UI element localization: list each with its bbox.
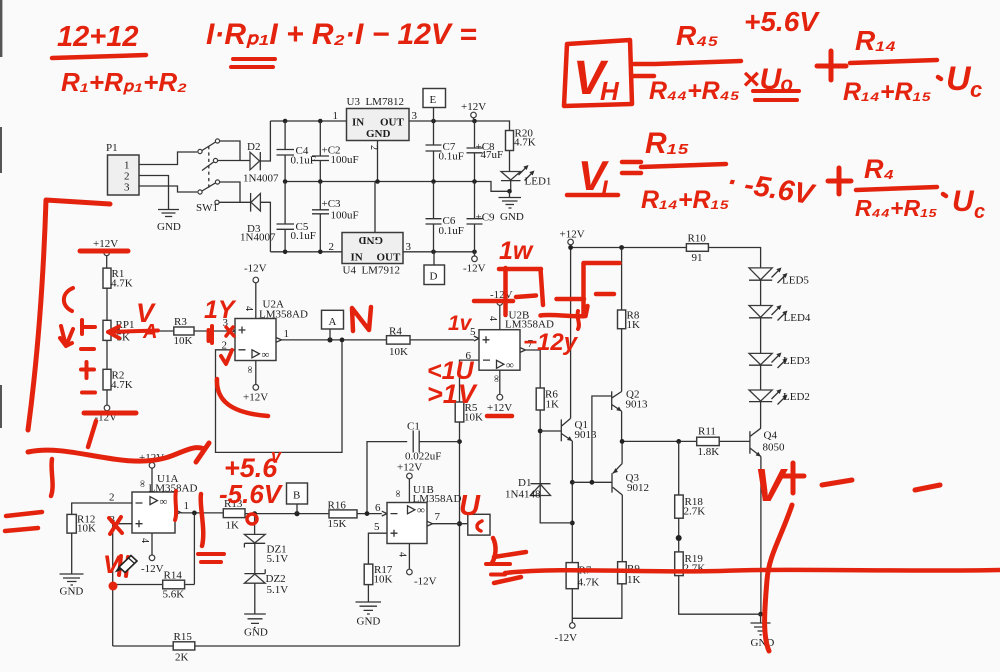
marks at U2A inputs (209, 326, 213, 343)
svg-text:4: 4 (243, 306, 254, 311)
BLACK SCHEMATIC (106, 89, 551, 285)
svg-text:U: U (946, 60, 972, 98)
svg-text:8050: 8050 (763, 442, 786, 454)
switch SW1 row C (198, 190, 202, 194)
resistor R11 (697, 437, 720, 445)
svg-text:15K: 15K (328, 518, 347, 530)
resistor R15 (173, 642, 195, 650)
svg-text:1N4148: 1N4148 (505, 489, 541, 501)
wire SW1 to D3 (219, 201, 250, 203)
svg-text:D1: D1 (518, 477, 531, 489)
wire -rect rail (bottom) (270, 251, 474, 253)
wire R5 to C1 node (459, 422, 461, 646)
svg-text:∞: ∞ (392, 490, 403, 497)
svg-text:+12V: +12V (560, 229, 585, 241)
svg-text:12+12: 12+12 (57, 21, 138, 53)
node A (322, 310, 344, 329)
svg-text:10K: 10K (174, 335, 193, 347)
transistor Q3 9012 (613, 441, 622, 473)
svg-text:R₁₄: R₁₄ (855, 25, 896, 56)
svg-text:10K: 10K (389, 346, 408, 358)
long horizontal red line (505, 570, 1000, 573)
wire Q2 base to Q3 base rail (592, 396, 612, 482)
node Q1 base junction (538, 429, 543, 434)
svg-text:Q4: Q4 (764, 430, 778, 442)
svg-text:10K: 10K (77, 523, 96, 535)
node Uc junction (457, 521, 462, 526)
svg-text:1K: 1K (627, 319, 641, 331)
capacitor C3 (312, 182, 329, 252)
svg-text:+12V: +12V (93, 238, 118, 250)
svg-text:-12V: -12V (463, 263, 486, 275)
wire Q3 collector to R9 (621, 495, 623, 562)
svg-text:U: U (952, 185, 975, 218)
ground (output stage) (751, 614, 771, 635)
svg-text:+C9: +C9 (476, 212, 496, 224)
node U1A feedback junction (192, 511, 197, 516)
resistor R7 (566, 563, 578, 589)
svg-text:D2: D2 (247, 141, 260, 153)
diode D3 (250, 193, 252, 212)
svg-text:6: 6 (375, 502, 381, 514)
svg-text:+C3: +C3 (322, 198, 342, 210)
dashes right of V+ (822, 480, 940, 490)
svg-text:OUT: OUT (377, 252, 402, 264)
svg-text:GND: GND (157, 221, 181, 233)
resistor R9 (618, 562, 627, 584)
wire Q3 base rail (572, 481, 612, 483)
node D (424, 265, 445, 285)
transistor Q1 9013 (540, 430, 561, 432)
ground (P1) (158, 210, 179, 217)
arc under U2A (217, 379, 268, 416)
svg-text:4.7K: 4.7K (514, 137, 536, 149)
svg-text:LED4: LED4 (784, 312, 811, 324)
svg-text:LED5: LED5 (782, 275, 809, 287)
svg-text:∞: ∞ (160, 496, 168, 508)
svg-text:5: 5 (374, 521, 380, 533)
pen cursor (116, 556, 137, 573)
LED5 (749, 268, 772, 280)
capacitor C7 (426, 121, 442, 182)
resistor R20 (506, 131, 514, 151)
svg-text:∞: ∞ (244, 366, 255, 373)
switch SW1 row A (198, 149, 202, 153)
capacitor C5 (277, 182, 295, 252)
mark under U2B +12V (487, 414, 512, 419)
note formula VH (564, 40, 632, 106)
svg-text:R15: R15 (174, 631, 193, 643)
svg-text:∞: ∞ (137, 480, 148, 487)
ground (LED1) (499, 191, 522, 208)
node dots top rail (283, 119, 288, 124)
wire U4 GND pin to mid rail (374, 182, 376, 233)
svg-text:R14: R14 (164, 570, 183, 582)
svg-text:R16: R16 (328, 500, 347, 512)
ground (R12) (60, 533, 84, 585)
svg-text:-5.6V: -5.6V (219, 479, 284, 509)
svg-text:R₄₄+R₄₅: R₄₄+R₄₅ (649, 77, 740, 105)
svg-text:47uF: 47uF (481, 149, 504, 161)
svg-text:0.1uF: 0.1uF (291, 230, 316, 242)
svg-text:H: H (600, 76, 620, 106)
svg-text:4: 4 (139, 538, 150, 543)
svg-text:10K: 10K (464, 412, 483, 424)
svg-text:V: V (754, 459, 788, 511)
connector P1 (108, 155, 140, 195)
wire U3 GND pin to mid rail (377, 141, 379, 182)
wire R16 to U1B pin6 (357, 513, 382, 515)
svg-text:LM358AD: LM358AD (149, 483, 198, 495)
svg-text:+12V: +12V (461, 101, 486, 113)
resistor R13 (223, 509, 245, 518)
transistor Q2 9013 (612, 329, 622, 398)
svg-text:OUT: OUT (380, 117, 405, 129)
svg-text:LED3: LED3 (783, 355, 810, 367)
resistor R18 (678, 441, 680, 495)
svg-text:SW1: SW1 (196, 202, 218, 214)
svg-text:3: 3 (124, 182, 130, 194)
wire R19 to GND node (679, 576, 761, 615)
svg-text:9013: 9013 (575, 429, 598, 441)
svg-text:7: 7 (435, 511, 441, 523)
svg-text:1w: 1w (499, 237, 534, 265)
svg-text:1K: 1K (546, 399, 560, 411)
zener DZ2 5.1V (254, 543, 256, 573)
svg-text:∞: ∞ (506, 360, 514, 372)
marks at U1A pin3 (109, 517, 122, 534)
svg-text:1: 1 (184, 500, 190, 512)
terminal -12V (supply) (474, 252, 476, 256)
svg-text:2: 2 (368, 145, 379, 150)
svg-text:D: D (430, 271, 438, 283)
switch SW1 pole (215, 200, 219, 204)
svg-text:10K: 10K (374, 574, 393, 586)
svg-text:1K: 1K (226, 520, 240, 532)
svg-text:>1V: >1V (427, 379, 478, 409)
resistor R4 (387, 336, 411, 344)
svg-text:C1: C1 (407, 421, 420, 433)
transistor Q4 8050 (749, 431, 751, 454)
note N mark right of node A (352, 307, 371, 331)
svg-text:R11: R11 (698, 426, 716, 438)
resistor R1 (106, 256, 108, 269)
resistor R16 (329, 510, 357, 518)
svg-text:1K: 1K (627, 574, 641, 586)
ground (R17) (356, 585, 382, 614)
svg-text:GND: GND (357, 616, 381, 628)
wire node B rail (245, 513, 329, 515)
resistor R5 (455, 402, 464, 422)
node C1/pin6 junction (365, 511, 370, 516)
svg-text:∞: ∞ (491, 375, 502, 382)
svg-text:+12V: +12V (397, 462, 422, 474)
wire Q1 emitter down (571, 441, 573, 563)
svg-text:R₁₄+R₁₅: R₁₄+R₁₅ (843, 78, 931, 106)
svg-text:9013: 9013 (626, 399, 649, 411)
svg-text:∞: ∞ (417, 505, 425, 517)
svg-text:1v: 1v (448, 312, 473, 335)
svg-text:-12V: -12V (141, 563, 164, 575)
wire U1A pin3 sense net (113, 524, 132, 585)
svg-text:U3 LM7812: U3 LM7812 (347, 96, 404, 108)
diode D1 1N4148 (531, 483, 551, 485)
resistor R6 (536, 388, 544, 410)
svg-text:LED1: LED1 (525, 176, 552, 188)
svg-text:2: 2 (109, 492, 115, 504)
ground (DZ2) (244, 583, 266, 627)
svg-text:R₁+Rₚ₁+R₂: R₁+Rₚ₁+R₂ (61, 67, 187, 97)
svg-text:U4 LM7912: U4 LM7912 (343, 265, 400, 277)
svg-text:2.7K: 2.7K (684, 506, 706, 518)
svg-text:1.8K: 1.8K (698, 446, 720, 458)
svg-text:5.1V: 5.1V (267, 553, 289, 565)
svg-text:+12V: +12V (487, 402, 512, 414)
wire R3 to U2A pin3 (194, 330, 230, 332)
wire U2B pin7 output to R6 (526, 350, 541, 388)
svg-text:IN: IN (352, 117, 364, 129)
svg-text:4.7K: 4.7K (111, 379, 133, 391)
switch SW1 row B (213, 158, 217, 162)
svg-text:+12V: +12V (243, 392, 268, 404)
wire U2A output to U2B pin5 (282, 339, 474, 341)
svg-text:91: 91 (692, 252, 703, 264)
squiggles at U1A output (175, 491, 176, 520)
resistor R17 (364, 564, 373, 585)
resistor R14 (163, 580, 185, 589)
svg-text:R₁₅: R₁₅ (645, 127, 689, 160)
svg-text:100uF: 100uF (331, 154, 359, 166)
wire U1B pin5 to R17 (368, 533, 387, 564)
left edge dark slivers (0, 0, 2, 57)
U2B V+ supply (+12V bottom) (499, 370, 501, 394)
red arrow at RP1 wiper (108, 327, 158, 339)
svg-text:v: v (271, 446, 282, 466)
red o at R13 output (247, 514, 257, 524)
resistor R19 (675, 552, 684, 576)
svg-text:0.1uF: 0.1uF (439, 151, 464, 163)
capacitor C9 (467, 182, 483, 252)
svg-text:4.7K: 4.7K (111, 278, 133, 290)
resistor R8 (621, 248, 623, 311)
wire P1 pin3 to switch row C (139, 186, 197, 192)
wire bottom rail to Uc node (195, 645, 460, 647)
svg-text:-12V: -12V (555, 632, 578, 644)
wire R9 bottom to -12V node (572, 584, 622, 619)
capacitor C1 (367, 431, 460, 514)
wire P1 pin2 to ground (139, 176, 169, 210)
svg-text:L: L (601, 176, 616, 203)
svg-text:+5.6V: +5.6V (744, 6, 820, 37)
svg-text:R₄₅: R₄₅ (676, 20, 719, 51)
node C1/R5 junction (457, 439, 462, 444)
resistor R10 (686, 244, 708, 252)
node Uc (468, 514, 490, 535)
svg-text:9012: 9012 (627, 482, 649, 494)
capacitor C8 (467, 121, 483, 182)
resistor R12 (67, 514, 76, 533)
svg-text:1N4007: 1N4007 (240, 232, 276, 244)
wire U1A output to R13 (181, 512, 224, 514)
svg-text:−12y: −12y (523, 329, 579, 356)
svg-text:R₁₄+R₁₅: R₁₄+R₁₅ (641, 186, 729, 214)
svg-text:IN: IN (351, 252, 363, 264)
switch SW1 dashed link (208, 146, 210, 190)
wire R6 to Q1 base node / D1 (539, 410, 541, 496)
long S stroke through GND (765, 505, 792, 651)
capacitor C2 (312, 121, 329, 182)
svg-text:GND: GND (500, 211, 524, 223)
svg-text:100uF: 100uF (331, 210, 359, 222)
wire P1 pin1 to switch row A (139, 152, 197, 165)
svg-text:LM358AD: LM358AD (413, 493, 462, 505)
svg-text:-12V: -12V (244, 263, 267, 275)
wire R14 feedback (113, 513, 195, 585)
svg-text:2K: 2K (175, 652, 189, 664)
node A junction (327, 337, 332, 342)
LED1 (501, 172, 521, 181)
node Q3 base junction (590, 480, 595, 485)
svg-text:GND: GND (359, 234, 384, 246)
left bracket Vt (28, 200, 110, 430)
svg-text:GND: GND (244, 627, 268, 639)
svg-text:R₄₄+R₁₅: R₄₄+R₁₅ (855, 195, 937, 221)
svg-text:R3: R3 (174, 316, 187, 328)
svg-text:4: 4 (397, 552, 408, 557)
capacitor C6 (426, 182, 442, 252)
wire RP1 to R2 (106, 340, 108, 369)
wire mid (ground) rail (285, 182, 509, 192)
svg-text:R₄: R₄ (864, 154, 894, 184)
op-amp U2A (235, 319, 276, 361)
LED3 (749, 353, 772, 364)
LED4 (749, 306, 772, 318)
svg-text:3: 3 (412, 110, 418, 122)
not-equal marks left of D1 (494, 552, 526, 583)
svg-text:R4: R4 (389, 326, 402, 338)
capacitor C4 (277, 121, 295, 182)
wire pin3 net down to bottom rail (113, 585, 174, 647)
svg-text:1: 1 (284, 328, 290, 340)
svg-text:1Y: 1Y (204, 296, 237, 324)
svg-text:LM358AD: LM358AD (259, 309, 308, 321)
svg-text:1N4007: 1N4007 (243, 173, 279, 185)
wire U2B pin6 to R5 (460, 360, 480, 402)
regulator U4 LM7912 (342, 233, 403, 264)
wire Q2 emitter to R11 node (621, 411, 623, 441)
svg-text:0.1uF: 0.1uF (439, 225, 464, 237)
wire R1 to RP1 (106, 288, 108, 320)
svg-text:c: c (970, 77, 982, 102)
node E (423, 89, 446, 108)
svg-text:5.1V: 5.1V (267, 584, 289, 596)
diode D2 (218, 160, 250, 162)
svg-text:E: E (430, 94, 437, 106)
svg-text:A: A (329, 316, 337, 328)
node R18/R19 (678, 518, 680, 552)
resistor R2 (103, 369, 111, 390)
svg-text:B: B (293, 490, 300, 502)
svg-text:GND: GND (366, 128, 391, 140)
wire +12V output rail (409, 121, 510, 131)
wire Q1 collector to +12V rail (570, 248, 572, 419)
svg-text:4: 4 (487, 316, 498, 321)
LED2 (749, 390, 772, 401)
U2A V+ supply (+12V bottom) (255, 361, 257, 385)
wire row C to D3 line (220, 182, 240, 202)
node B (287, 483, 308, 504)
svg-text:∞: ∞ (262, 349, 270, 361)
wire row A to D2 line (220, 141, 240, 161)
svg-text:c: c (974, 201, 985, 223)
wire U2A pin2 feedback loop (216, 340, 343, 453)
svg-text:LED2: LED2 (783, 391, 810, 403)
svg-text:I·Rₚ₁I + R₂·I − 12V =: I·Rₚ₁I + R₂·I − 12V = (206, 18, 477, 51)
potentiometer RP1 (103, 320, 111, 340)
svg-text:4.7K: 4.7K (578, 577, 600, 589)
resistor R3 (174, 327, 194, 335)
wire +rect rail (top) (270, 120, 346, 122)
wire R10 to LED chain (708, 248, 760, 268)
svg-text:-12V: -12V (414, 576, 437, 588)
svg-text:GND: GND (751, 637, 775, 649)
terminal -12V (R2 bottom) (106, 390, 108, 405)
svg-text:U: U (459, 490, 481, 522)
wire U1A pin2 to R12 (72, 503, 132, 514)
svg-text:GND: GND (60, 586, 84, 598)
zener DZ1 5.1V (254, 514, 256, 535)
wire Q4 emitter to GND (760, 457, 762, 615)
svg-text:5.6K: 5.6K (163, 589, 185, 601)
svg-text:R10: R10 (688, 233, 707, 245)
regulator U3 LM7812 (347, 109, 410, 141)
svg-text:1: 1 (333, 110, 339, 122)
wire U1B pin7 to node Uc (433, 523, 468, 525)
op-amp U2B (474, 336, 479, 341)
terminal -12V (R7 bottom) (571, 589, 573, 623)
svg-text:P1: P1 (106, 142, 118, 154)
wire R11 node rail (622, 440, 750, 442)
